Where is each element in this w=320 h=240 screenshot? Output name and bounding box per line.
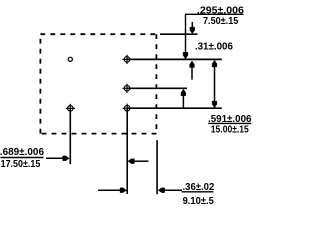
svg-text:.689±.006: .689±.006 [0,147,44,158]
orientation mark circle [68,57,72,61]
pin P1 [122,55,131,64]
dimension .31 upper arrow [191,22,193,28]
dimension .295 leader and upper arrow [186,14,244,53]
dimension .36 right arrow and leader [163,189,182,191]
extension line right edge down [156,140,158,194]
svg-text:17.50±.15: 17.50±.15 [1,159,41,170]
extension line pin row 2 [127,87,187,89]
svg-text:.31±.006: .31±.006 [195,41,233,52]
dimension .36 left arrow [98,189,122,191]
extension line pin P3 down [126,108,128,194]
dimension .295 lower arrow [182,94,184,108]
pin P4 [66,104,75,113]
svg-text:7.50±.15: 7.50±.15 [203,16,239,27]
svg-text:15.00±.15: 15.00±.15 [211,125,249,136]
extension line pin row 1 [127,58,222,60]
dimension .689 leader and left arrow [46,157,64,159]
svg-text:9.10±.5: 9.10±.5 [183,196,215,207]
dimension .591 line with arrows [214,61,216,108]
dimension .31 lower arrow [191,66,193,80]
extension line pin row 3 [127,107,222,109]
component outline (dashed box) [40,34,156,133]
extension line pin P4 down [69,108,71,164]
pin P2 [122,84,131,93]
dimension .689 right arrow [133,160,149,162]
pin P3 [123,104,132,113]
extension line top edge [160,33,198,35]
